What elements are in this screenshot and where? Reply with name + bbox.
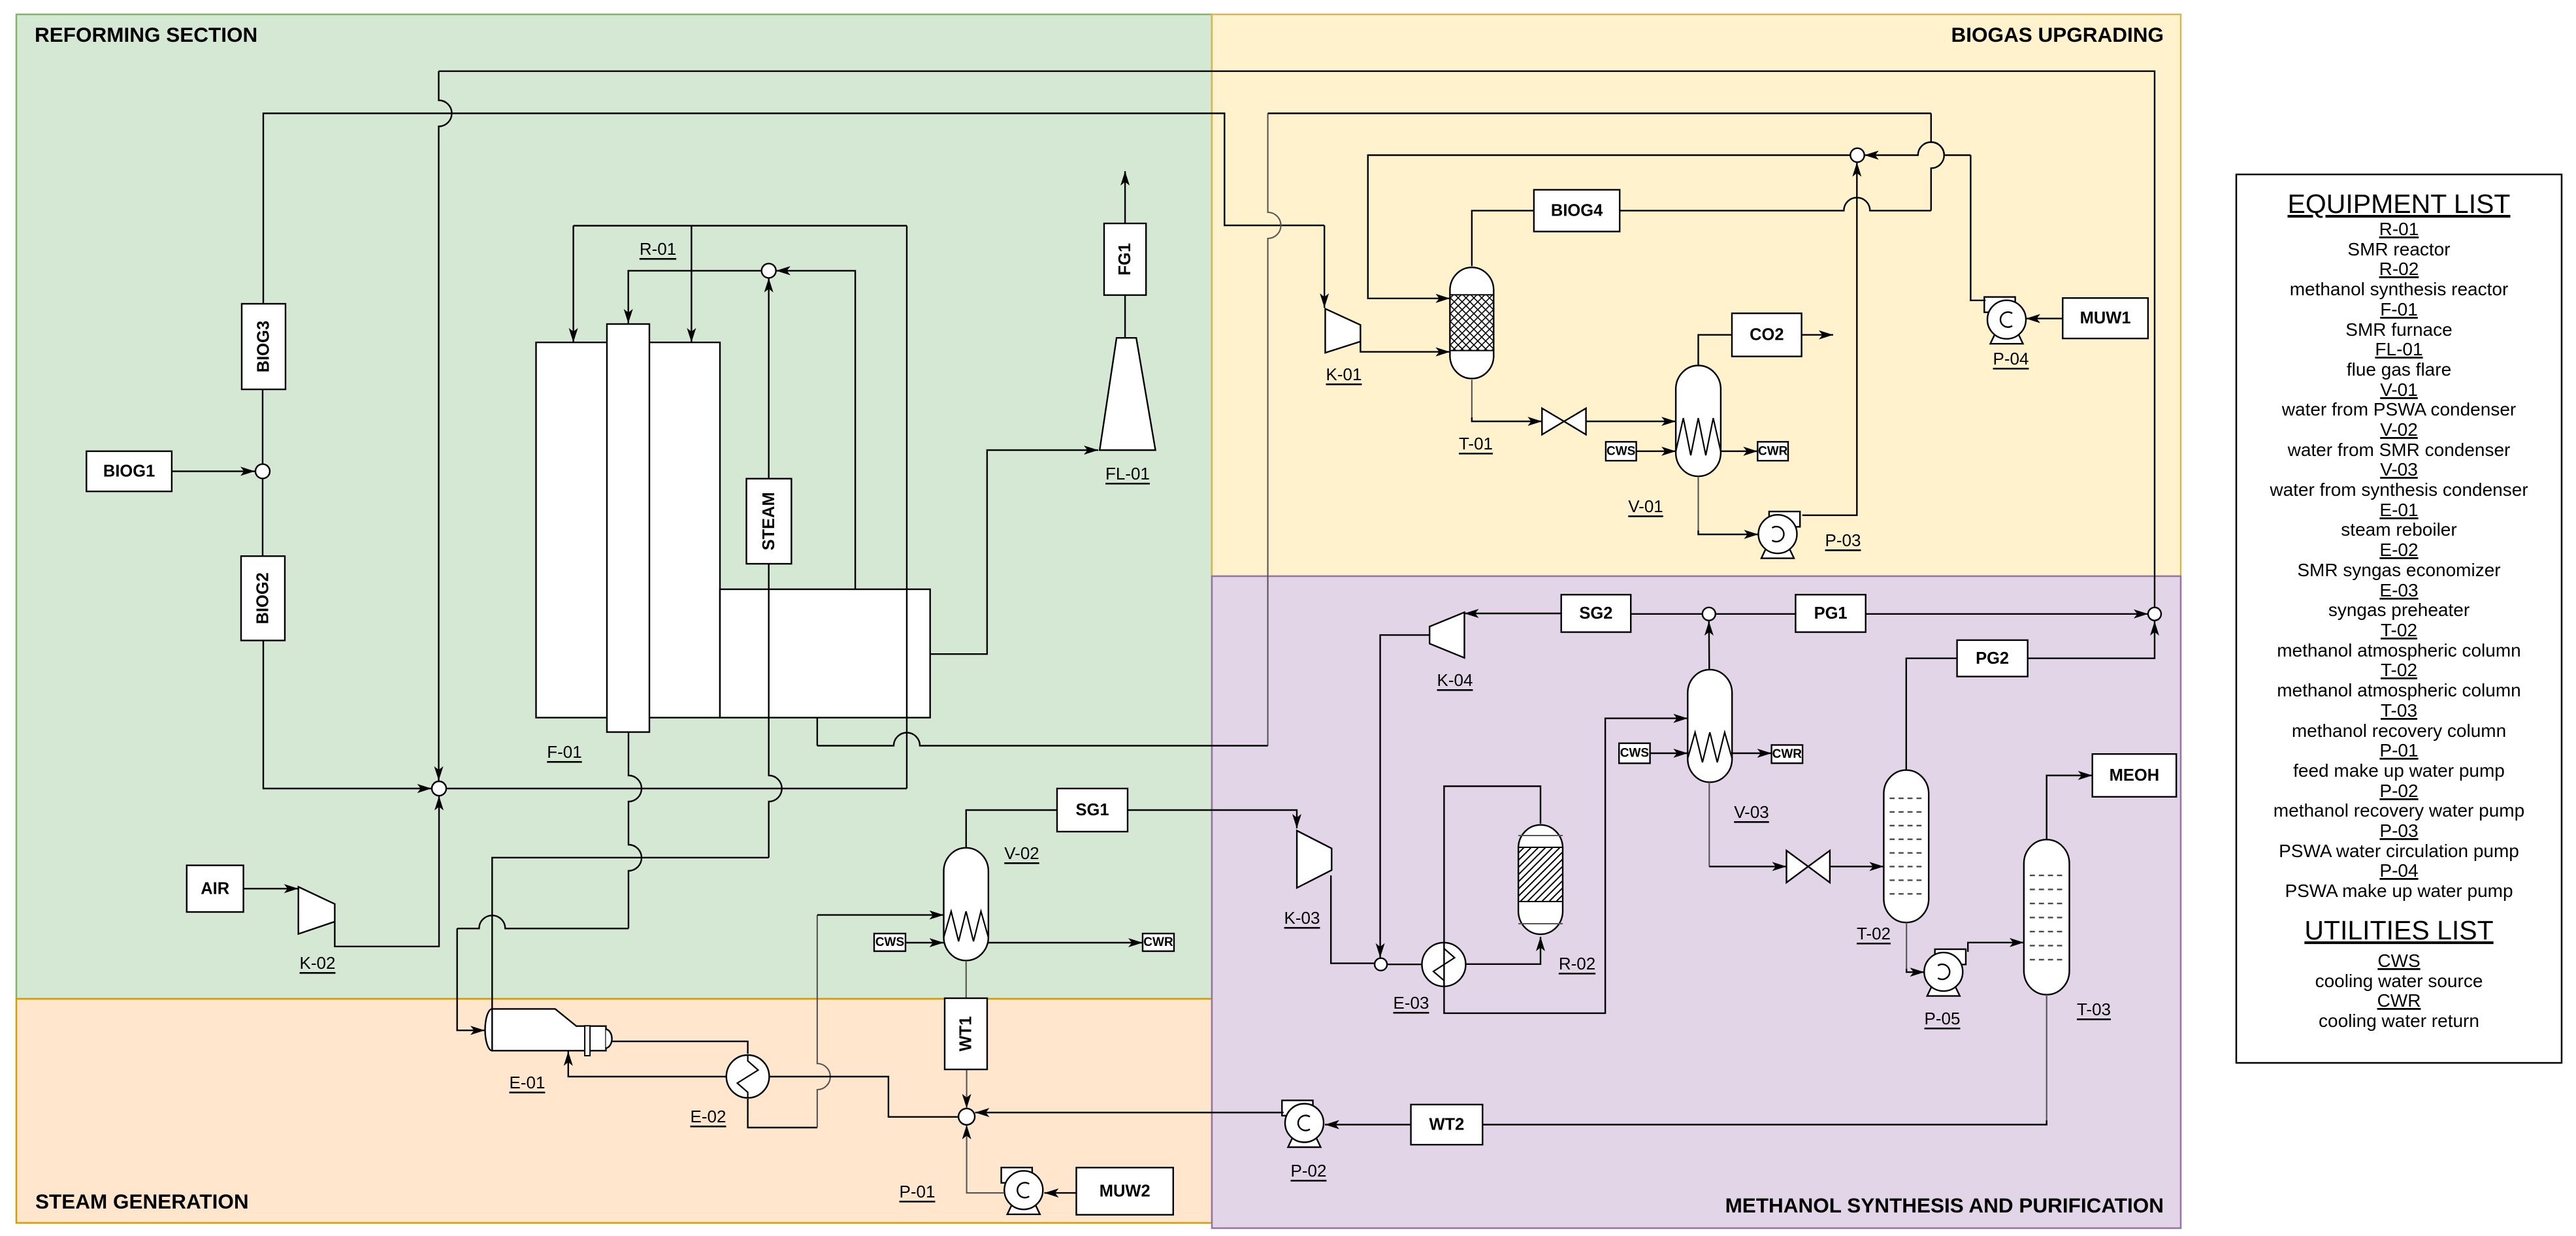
svg-text:T-03: T-03 (2381, 700, 2417, 721)
wire: recycle down-leg into junction J1 (hops BIOG3 line) (439, 71, 452, 781)
svg-text:STEAM: STEAM (760, 492, 778, 550)
svg-text:P-01: P-01 (900, 1182, 936, 1201)
svg-text:methanol atmospheric column: methanol atmospheric column (2277, 680, 2521, 700)
wire: STEAM label up to node N2 (768, 278, 769, 479)
stream box PG2 (1957, 640, 2028, 677)
svg-text:PG1: PG1 (1814, 604, 1848, 623)
wire: burner drop arrow left (572, 226, 574, 343)
svg-text:F-01: F-01 (547, 742, 581, 762)
reactor R-02 vessel (1518, 825, 1563, 934)
svg-text:UTILITIES LIST: UTILITIES LIST (2304, 915, 2493, 945)
svg-text:E-03: E-03 (1394, 993, 1429, 1013)
svg-text:T-02: T-02 (2381, 620, 2417, 640)
wire: V-03 bottoms to valve (1708, 782, 1710, 866)
reboiler E-01 kettle shell (485, 1009, 606, 1050)
section background: STEAM GENERATION (peach) (16, 999, 1212, 1223)
wire: K-04 recycle down to junction J3 (1380, 635, 1430, 958)
svg-text:EQUIPMENT LIST: EQUIPMENT LIST (2288, 189, 2511, 219)
stream box MUW2 (1077, 1167, 1173, 1214)
wire: P-03 discharge riser to junction J6 (1802, 163, 1857, 515)
svg-text:BIOG3: BIOG3 (255, 321, 273, 372)
wire: T-02 bottoms to P-05 (1906, 922, 1907, 969)
distillation column T-02 (1883, 770, 1929, 922)
equipment list panel (2236, 174, 2562, 1063)
junction J2 boiler feedwater mix (958, 1109, 975, 1125)
stream box CWS (purple section) (1619, 743, 1650, 764)
svg-text:FL-01: FL-01 (2375, 339, 2422, 359)
svg-text:CO2: CO2 (1750, 326, 1784, 344)
compressor K-03 trapezoid (1297, 831, 1331, 888)
svg-text:T-01: T-01 (1459, 434, 1493, 453)
svg-text:SMR syngas economizer: SMR syngas economizer (2297, 560, 2500, 580)
svg-text:P-05: P-05 (1925, 1009, 1961, 1028)
wire: STEAM label down through F-01 to E-01 top (769, 564, 782, 858)
svg-text:K-04: K-04 (1437, 670, 1473, 690)
wire: V-02 bottoms to WT1 (966, 960, 967, 998)
svg-text:T-02: T-02 (2381, 660, 2417, 680)
wire: V-03 overhead to junction J4 (1708, 621, 1710, 670)
economizer E-02 exchanger circle (726, 1055, 770, 1098)
svg-text:CWS: CWS (1606, 444, 1635, 458)
stream box CWR (yellow section) (1757, 442, 1788, 461)
svg-text:BIOG2: BIOG2 (254, 572, 272, 624)
wire: junction J4 to SG2 (1631, 613, 1703, 615)
wire: feed riser from junction J1 to burner header through F-01 (906, 226, 907, 789)
svg-text:CWS: CWS (2377, 951, 2420, 971)
stream box BIOG4 (1534, 190, 1620, 232)
svg-text:AIR: AIR (201, 879, 229, 898)
svg-text:BIOGAS UPGRADING: BIOGAS UPGRADING (1951, 23, 2164, 46)
section background: METHANOL SYNTHESIS AND PURIFICATION (purple) (1212, 576, 2181, 1228)
wire: AIR to K-02 (244, 888, 299, 889)
R-02 head lines (1518, 835, 1563, 836)
svg-text:cooling water source: cooling water source (2315, 971, 2483, 991)
reactor R-01 tube (overlapping column) (607, 324, 649, 732)
svg-text:P-04: P-04 (2379, 860, 2418, 881)
wire: V-02 overhead to SG1 (966, 810, 1057, 848)
pump P-03 (mirrored) (1759, 512, 1801, 559)
wire: T-01 bottoms to valve (1471, 380, 1473, 417)
svg-text:syngas preheater: syngas preheater (2328, 600, 2470, 620)
svg-text:cooling water return: cooling water return (2319, 1011, 2479, 1031)
svg-text:CWS: CWS (1620, 747, 1649, 760)
wire: V-01 overhead to CO2 (1699, 335, 1733, 366)
wire: P-01 discharge to junction J2 (967, 1125, 1005, 1193)
wire: V-03 coil to CWR (1732, 753, 1771, 754)
svg-text:WT1: WT1 (957, 1016, 975, 1052)
wire: MUW2 to P-01 suction (1045, 1192, 1077, 1194)
condenser vessel V-02 (944, 848, 988, 961)
V-03 cooling coil zigzag (1687, 732, 1732, 762)
svg-text:SG1: SG1 (1075, 801, 1109, 819)
reboiler E-01 flange plate (585, 1026, 590, 1056)
wire: convection coil steam riser to node N2 (776, 270, 855, 589)
wire: K-01 inlet drop arrow (1324, 225, 1325, 308)
pump P-04 (1984, 297, 2026, 344)
svg-text:steam reboiler: steam reboiler (2341, 519, 2456, 540)
wire: purge recycle top line from junction J5 riser to J1 riser (y=107) (439, 71, 2155, 608)
section background: BIOGAS UPGRADING (yellow) (1212, 14, 2181, 576)
svg-text:V-02: V-02 (1004, 843, 1039, 863)
svg-text:BIOG4: BIOG4 (1551, 201, 1603, 220)
wire: valve to V-01 inlet (1586, 421, 1676, 422)
svg-text:E-01: E-01 (510, 1073, 546, 1092)
wire: FL-01 to FG1 (1124, 295, 1126, 338)
svg-text:CWR: CWR (1758, 444, 1788, 458)
wire: T-01 overhead to BIOG4 label (1472, 210, 1534, 266)
wire: F-01 flue gas outlet to flare FL-01 (930, 450, 1098, 654)
wire: E-02 bottom to V-02 inlet riser (748, 1099, 817, 1128)
svg-text:P-01: P-01 (2379, 740, 2418, 760)
wire: node N1 down to BIOG2 (262, 478, 263, 556)
svg-text:BIOG1: BIOG1 (103, 463, 155, 481)
svg-text:STEAM GENERATION: STEAM GENERATION (35, 1190, 249, 1213)
stream box PG1 (1795, 594, 1865, 632)
wire: E-03 to R-02 bottom inlet (1466, 937, 1541, 964)
T-03 trays (dashed) (2030, 875, 2035, 876)
wire: WT2 to P-02 suction (1325, 1124, 1411, 1125)
wire: SG1 to K-03 inlet (1128, 810, 1297, 828)
wire: PG1 to junction J5 (1866, 613, 2148, 615)
svg-text:V-02: V-02 (2380, 419, 2418, 440)
distillation column T-03 (2024, 839, 2070, 994)
wire: BIOG4 route right of box to corner x=2955.8 (1620, 197, 1931, 210)
E-02 zigzag symbol (738, 1055, 758, 1098)
svg-text:MUW1: MUW1 (2080, 309, 2131, 327)
V-01 cooling coil zigzag (1676, 418, 1721, 455)
wire: junction J3 to E-03 (1387, 964, 1422, 965)
wire: BIOG3 line to K-01 (y=179 left segment, then down and over) (263, 114, 1324, 390)
wire: MUW1 to P-04 suction (2026, 317, 2062, 319)
stream box MUW1 (2062, 298, 2148, 338)
wire: R-01 bottom syngas down (628, 732, 642, 929)
compressor K-04 trapezoid (1429, 612, 1464, 658)
svg-text:CWR: CWR (1772, 747, 1802, 761)
svg-text:MEOH: MEOH (2110, 766, 2160, 785)
wire: CO2 outlet arrow (1802, 334, 1833, 335)
svg-text:METHANOL SYNTHESIS AND PURIFIC: METHANOL SYNTHESIS AND PURIFICATION (1725, 1194, 2164, 1217)
furnace F-01 radiant box (536, 342, 721, 717)
stream box BIOG3 (rotated) (242, 304, 285, 389)
node N1 biogas split (255, 464, 270, 478)
svg-text:WT2: WT2 (1429, 1116, 1464, 1134)
stream box SG1 (1057, 789, 1128, 832)
wire: F-01 burner header (top line y=345.5) (574, 225, 907, 226)
wire: PSWA water junction J6 to T-01 top inlet (1368, 155, 1851, 299)
wire: PG2 to junction J5 (2028, 621, 2155, 659)
svg-text:V-03: V-03 (1734, 802, 1769, 822)
junction J1 burner feed mix (432, 781, 446, 796)
svg-text:T-02: T-02 (1857, 924, 1891, 943)
svg-text:CWS: CWS (875, 935, 904, 949)
svg-text:V-01: V-01 (1628, 496, 1663, 516)
svg-text:MUW2: MUW2 (1100, 1182, 1150, 1200)
svg-text:PG2: PG2 (1976, 649, 2009, 668)
svg-text:PSWA water circulation pump: PSWA water circulation pump (2279, 841, 2519, 861)
svg-text:P-03: P-03 (2379, 821, 2418, 841)
wire: fuel line horizontal y=1141.5 into F-01 bottom stub (817, 733, 1268, 746)
wire: valve to T-02 inlet (1830, 866, 1884, 867)
absorber column T-01 (1450, 267, 1493, 378)
svg-text:methanol atmospheric column: methanol atmospheric column (2277, 640, 2521, 660)
wire: T-03 overhead to MEOH (2047, 775, 2093, 839)
wire: SG2 to K-04 inlet (1465, 613, 1561, 614)
svg-text:PSWA make up water pump: PSWA make up water pump (2285, 881, 2513, 901)
pump P-05 (mirrored) (1924, 949, 1966, 996)
node N2 steam mix (762, 263, 776, 278)
junction J5 purge gas mix (2148, 608, 2161, 621)
svg-text:methanol synthesis reactor: methanol synthesis reactor (2290, 279, 2509, 299)
svg-text:K-03: K-03 (1284, 908, 1320, 928)
V-02 cooling coil zigzag (944, 911, 988, 941)
svg-text:E-02: E-02 (691, 1107, 726, 1126)
svg-text:P-02: P-02 (1291, 1161, 1327, 1180)
wire: K-02 air line up to junction J1 (334, 796, 439, 947)
stream box AIR (187, 866, 244, 912)
svg-text:CWR: CWR (2377, 990, 2421, 1011)
wire: junction J4 to PG1 (1716, 613, 1795, 615)
stream box CWR (purple section) (1772, 745, 1803, 763)
preheater E-03 exchanger circle (1422, 943, 1466, 986)
svg-text:methanol recovery water pump: methanol recovery water pump (2274, 800, 2524, 821)
wire: R-02 outlet through E-03 hot side (1444, 787, 1541, 943)
svg-text:SMR reactor: SMR reactor (2347, 239, 2450, 259)
wire: junction J1 horizontal to feed riser (439, 788, 907, 789)
svg-text:R-02: R-02 (1559, 954, 1595, 973)
svg-text:R-01: R-01 (640, 239, 676, 259)
svg-text:FG1: FG1 (1116, 243, 1134, 276)
flare FL-01 (1100, 338, 1155, 450)
T-02 trays (dashed) (1889, 798, 1895, 799)
stream box WT1 (rotated) (945, 998, 987, 1069)
wire: T-02 overhead to PG2 (1906, 659, 1957, 770)
wire: FG1 vent arrow (1124, 171, 1126, 223)
wire: node N1 up to BIOG3 (262, 389, 263, 464)
svg-text:flue gas flare: flue gas flare (2347, 359, 2451, 380)
valve between V-03 and T-02 (1787, 851, 1830, 883)
stream box CWS (yellow section) (1606, 442, 1637, 461)
E-03 zigzag symbol (1433, 943, 1455, 986)
compressor K-02 trapezoid (299, 887, 335, 934)
svg-text:water from synthesis condenser: water from synthesis condenser (2269, 480, 2528, 500)
section background: REFORMING SECTION (green) (16, 14, 1212, 999)
junction J3 synthesis feed mix (1375, 958, 1387, 971)
wire: K-03 outlet to junction J3 (1331, 875, 1375, 964)
wire: CWS to V-03 coil (1650, 753, 1688, 754)
wire: P-02 discharge to junction J2 (975, 1112, 1284, 1113)
wire: V-01 coil to CWR (1721, 451, 1757, 452)
wire: K-01 outlet to T-01 lower inlet (1360, 342, 1450, 352)
stream box STEAM (rotated) (747, 479, 792, 564)
wire: BIOG1 to node N1 (172, 470, 255, 472)
wire: T-03 bottoms to WT2 (2046, 995, 2047, 1120)
svg-text:SMR furnace: SMR furnace (2345, 319, 2452, 340)
svg-text:T-03: T-03 (2077, 1000, 2111, 1019)
stream box SG2 (1561, 594, 1631, 632)
svg-text:CWR: CWR (1143, 935, 1173, 949)
valve between T-01 and V-01 (1542, 408, 1586, 434)
stream box BIOG2 (rotated) (241, 556, 285, 640)
condenser vessel V-01 (1676, 365, 1721, 476)
svg-text:P-03: P-03 (1825, 530, 1861, 550)
stream box BIOG1 (86, 451, 172, 492)
svg-text:water from SMR condenser: water from SMR condenser (2287, 440, 2511, 460)
wire: water line through E-02 (left side, to E-01 bottom) (568, 1052, 726, 1077)
svg-text:P-04: P-04 (1993, 349, 2029, 368)
svg-text:REFORMING SECTION: REFORMING SECTION (35, 23, 257, 46)
svg-text:E-02: E-02 (2379, 540, 2418, 560)
svg-text:K-01: K-01 (1326, 365, 1362, 384)
wire: steam mixing node N2 to R-01 top (628, 270, 762, 323)
wire: BIOG2 feed down to junction J1 (263, 640, 432, 789)
stream box WT2 (1411, 1105, 1483, 1145)
svg-text:feed make up water pump: feed make up water pump (2293, 760, 2505, 781)
stream box CO2 (1732, 314, 1802, 357)
wire: BIOG4 fuel return line (y=179 right segment) down to furnace (1268, 114, 1281, 746)
svg-text:water from PSWA condenser: water from PSWA condenser (2281, 399, 2516, 419)
wire: WT1 to junction J2 (966, 1069, 968, 1109)
wire: P-04 discharge to junction J6 (1970, 155, 1985, 301)
wire: syngas to E-01 side inlet (457, 915, 628, 928)
wire: P-05 discharge to T-03 inlet (1968, 943, 2024, 952)
stream box CWS (green section) (874, 934, 905, 951)
svg-text:F-01: F-01 (2380, 299, 2418, 319)
furnace F-01 convection box (720, 589, 930, 718)
svg-text:P-02: P-02 (2379, 781, 2418, 801)
svg-text:FL-01: FL-01 (1105, 464, 1150, 483)
pump P-01 (1002, 1167, 1043, 1214)
wire: CWS to V-02 coil (905, 942, 944, 943)
svg-text:K-02: K-02 (300, 953, 336, 973)
svg-text:R-01: R-01 (2379, 219, 2419, 239)
svg-text:V-01: V-01 (2380, 380, 2418, 400)
junction J6 PSWA water mix (1850, 148, 1864, 162)
pump P-02 (1282, 1100, 1324, 1147)
compressor K-01 trapezoid (1326, 309, 1361, 353)
wire: CWS to V-01 coil (1637, 451, 1676, 452)
svg-text:E-03: E-03 (2379, 580, 2418, 600)
condenser vessel V-03 (1687, 670, 1732, 782)
stream box CWR (green section) (1143, 934, 1174, 951)
svg-text:methanol recovery column: methanol recovery column (2292, 721, 2506, 741)
wire: water line J2 output to E-02 right side (769, 1077, 958, 1117)
wire: E-01 outlet to E-02 top (612, 1041, 748, 1054)
stream box MEOH (2093, 754, 2177, 797)
stream box FG1 (rotated) (1104, 223, 1146, 295)
svg-text:E-01: E-01 (2379, 500, 2418, 520)
wire: V-02 coil to CWR (988, 942, 1143, 943)
junction J4 purge split (1703, 608, 1716, 621)
svg-text:R-02: R-02 (2379, 259, 2419, 279)
svg-text:V-03: V-03 (2380, 459, 2418, 480)
wire: V-01 bottoms to P-03 pump (1697, 476, 1699, 530)
wire: burner drop arrow right (691, 226, 692, 343)
svg-text:SG2: SG2 (1579, 604, 1612, 623)
